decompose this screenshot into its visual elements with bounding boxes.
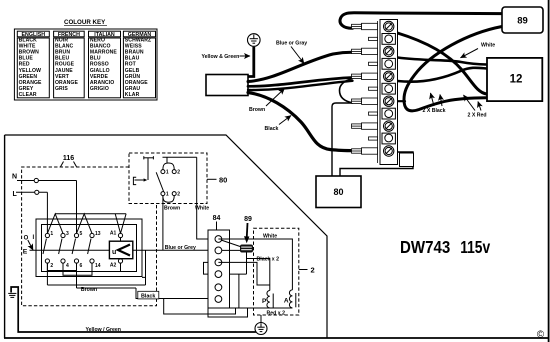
svg-text:1: 1 xyxy=(50,231,53,237)
svg-text:P: P xyxy=(262,298,267,305)
svg-text:Blue or Grey: Blue or Grey xyxy=(165,245,196,251)
svg-text:E: E xyxy=(23,248,28,255)
svg-text:116: 116 xyxy=(63,155,74,162)
svg-text:6: 6 xyxy=(80,263,83,269)
svg-text:GRIGIO: GRIGIO xyxy=(90,86,109,92)
svg-text:2: 2 xyxy=(177,170,180,176)
svg-text:Black: Black xyxy=(141,293,155,299)
svg-text:©: © xyxy=(537,330,545,341)
svg-text:White: White xyxy=(481,43,495,49)
svg-text:Brown: Brown xyxy=(164,205,180,211)
svg-text:115v: 115v xyxy=(460,237,490,257)
svg-text:Brown: Brown xyxy=(249,107,265,113)
svg-text:DW743: DW743 xyxy=(400,237,450,257)
svg-text:Brown: Brown xyxy=(81,287,97,293)
svg-text:14: 14 xyxy=(95,263,101,269)
svg-text:N: N xyxy=(12,173,17,180)
svg-text:80: 80 xyxy=(333,187,343,197)
svg-text:89: 89 xyxy=(517,16,528,27)
svg-text:3: 3 xyxy=(66,231,69,237)
svg-text:80: 80 xyxy=(219,176,227,185)
svg-text:4: 4 xyxy=(66,263,69,269)
svg-text:A2: A2 xyxy=(110,263,117,269)
svg-text:COLOUR KEY: COLOUR KEY xyxy=(64,19,107,26)
svg-text:GRÜN: GRÜN xyxy=(125,73,141,80)
svg-text:I: I xyxy=(33,235,35,241)
svg-text:KLAR: KLAR xyxy=(125,92,140,98)
svg-text:89: 89 xyxy=(244,216,252,223)
svg-text:Yellow / Green: Yellow / Green xyxy=(86,327,121,333)
svg-text:1: 1 xyxy=(166,192,169,198)
svg-text:White: White xyxy=(263,234,277,240)
svg-text:12: 12 xyxy=(510,73,523,85)
svg-text:Black: Black xyxy=(265,126,279,132)
svg-text:13: 13 xyxy=(95,231,101,237)
svg-text:GRIS: GRIS xyxy=(55,86,68,92)
svg-text:2: 2 xyxy=(311,266,315,275)
svg-text:2: 2 xyxy=(50,263,53,269)
svg-text:1: 1 xyxy=(166,170,169,176)
svg-text:Black x 2: Black x 2 xyxy=(257,257,280,263)
svg-text:2 X Red: 2 X Red xyxy=(468,113,487,119)
svg-text:Blue or Gray: Blue or Gray xyxy=(276,41,307,47)
svg-text:Yellow & Green: Yellow & Green xyxy=(202,54,240,60)
svg-text:84: 84 xyxy=(213,215,221,222)
svg-text:White: White xyxy=(195,205,209,211)
svg-text:2 X Black: 2 X Black xyxy=(423,108,446,114)
svg-text:A1: A1 xyxy=(110,231,117,237)
svg-text:CLEAR: CLEAR xyxy=(19,92,37,98)
svg-text:A: A xyxy=(284,298,289,305)
svg-text:5: 5 xyxy=(80,231,83,237)
svg-text:2: 2 xyxy=(177,192,180,198)
